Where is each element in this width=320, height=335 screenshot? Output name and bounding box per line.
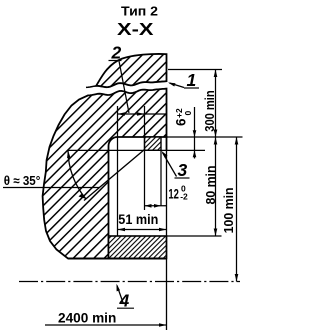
- bottom edge thick line: [68, 258, 167, 260]
- dim 300 min: [215, 70, 217, 138]
- extension line x144.5: [144, 106, 146, 210]
- backing block (item 3): [145, 137, 162, 150]
- svg-text:Тип 2: Тип 2: [121, 5, 158, 19]
- svg-text:2400 min: 2400 min: [58, 310, 116, 325]
- weld bead piece (item 2 body): [96, 54, 166, 87]
- svg-text:θ ≈ 35°: θ ≈ 35°: [4, 173, 41, 188]
- main body (hatched flange with cavity): [43, 89, 167, 259]
- theta horizontal ray: [68, 149, 161, 151]
- dim 51 min: [118, 229, 167, 231]
- svg-text:51 min: 51 min: [118, 212, 158, 227]
- centerline: [19, 281, 240, 283]
- theta arc: [68, 150, 86, 199]
- dim 6+2/0 vertical: [194, 107, 196, 159]
- extension line x117: [117, 106, 119, 236]
- wavy break line A (bottom of weld bead): [86, 81, 167, 87]
- svg-text:0: 0: [183, 111, 193, 116]
- extension y236 right: [167, 235, 222, 237]
- block bottom edge extension line: [161, 149, 205, 151]
- svg-text:1: 1: [187, 70, 197, 90]
- theta diagonal ray: [84, 150, 145, 201]
- svg-text:12: 12: [168, 186, 179, 201]
- backing bar (bottom strip): [109, 236, 167, 259]
- dim 100 min: [236, 137, 238, 282]
- svg-text:100 min: 100 min: [221, 187, 236, 233]
- svg-text:300 min: 300 min: [202, 90, 217, 131]
- svg-text:6: 6: [174, 118, 189, 126]
- svg-text:2: 2: [111, 43, 122, 63]
- wall inner surface extension: [160, 150, 162, 205]
- svg-text:Х-Х: Х-Х: [117, 19, 154, 39]
- dim 80 min: [215, 137, 217, 236]
- cavity top extension line y137: [167, 136, 243, 138]
- svg-text:80 min: 80 min: [203, 166, 218, 205]
- top extension line y69.5: [168, 69, 222, 71]
- gap dimension line y114: [118, 113, 167, 115]
- dim 12 0/-2: [145, 205, 168, 207]
- svg-text:3: 3: [178, 160, 188, 180]
- svg-text:-2: -2: [180, 192, 188, 202]
- right edge extension line: [166, 150, 168, 330]
- wall outer surface segment: [166, 136, 168, 150]
- dim 2400 min: [45, 324, 167, 326]
